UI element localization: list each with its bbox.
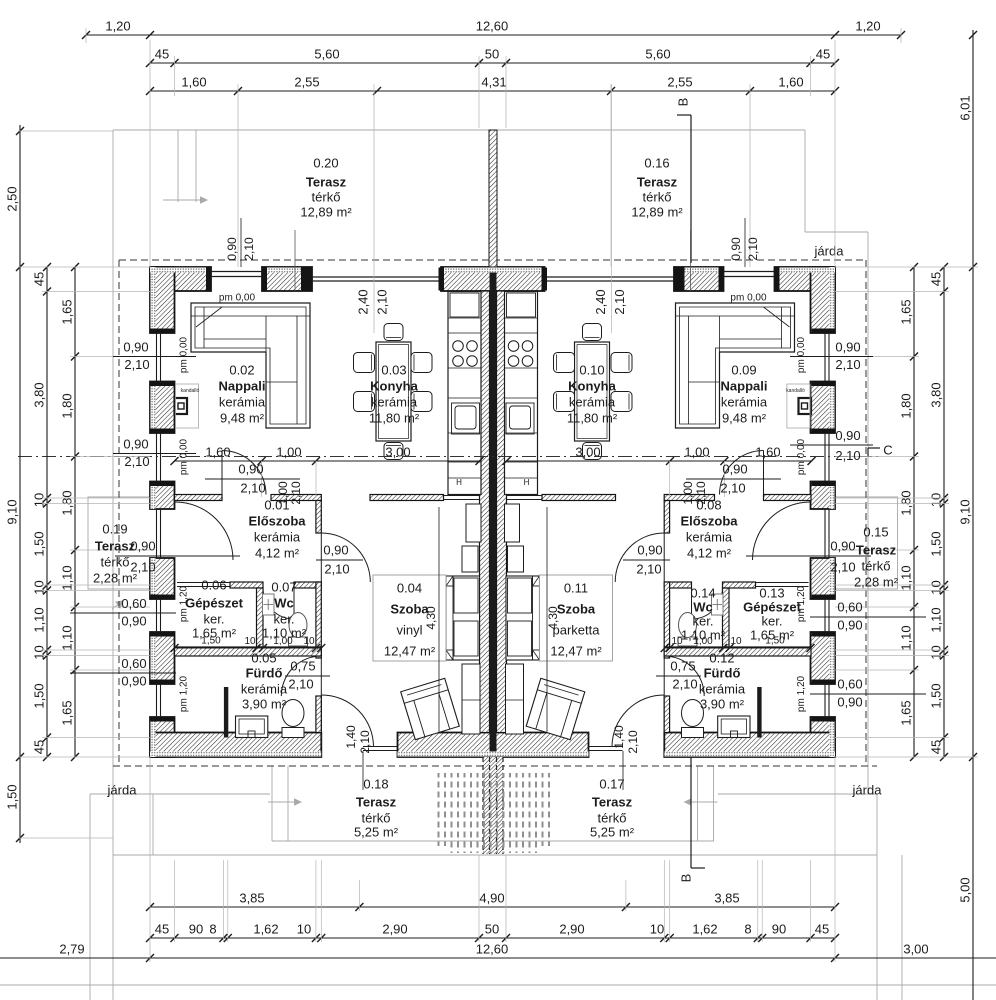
svg-text:Gépészet: Gépészet [743,599,801,614]
svg-text:8: 8 [744,921,751,936]
svg-text:1,65: 1,65 [59,700,74,725]
svg-text:1,62: 1,62 [692,921,717,936]
svg-text:Szoba: Szoba [557,601,596,616]
svg-text:2,10: 2,10 [746,237,760,261]
svg-text:12,47 m²: 12,47 m² [550,643,602,658]
svg-text:2,28 m²: 2,28 m² [854,574,899,589]
svg-text:pm 1,20: pm 1,20 [796,585,807,622]
svg-text:0,90: 0,90 [837,694,862,709]
svg-text:0.02: 0.02 [229,362,254,377]
svg-text:1,20: 1,20 [105,18,130,33]
svg-text:1,10 m²: 1,10 m² [262,625,307,640]
svg-text:6,01: 6,01 [957,95,972,120]
svg-text:1,40: 1,40 [344,725,358,749]
svg-text:10: 10 [31,645,46,659]
svg-text:8: 8 [209,921,216,936]
svg-text:pm 0,00: pm 0,00 [730,293,767,304]
svg-text:3,00: 3,00 [385,444,410,459]
svg-text:Terasz: Terasz [856,542,897,557]
svg-text:45: 45 [928,740,943,754]
svg-text:10: 10 [928,580,943,594]
svg-text:B: B [675,98,690,107]
svg-text:C: C [883,442,892,457]
svg-text:2,10: 2,10 [130,559,155,574]
svg-text:3,00: 3,00 [575,444,600,459]
svg-text:ker.: ker. [693,613,714,628]
svg-text:2,10: 2,10 [672,676,697,691]
svg-text:2,10: 2,10 [288,676,313,691]
svg-text:5,60: 5,60 [645,46,670,61]
svg-text:0,75: 0,75 [290,658,315,673]
svg-text:0,90: 0,90 [123,436,148,451]
svg-text:2,10: 2,10 [124,454,149,469]
svg-text:0,90: 0,90 [835,339,860,354]
svg-text:Fürdő: Fürdő [246,665,283,680]
svg-text:0,60: 0,60 [121,596,146,611]
svg-text:3,00: 3,00 [903,941,928,956]
svg-text:0,90: 0,90 [225,237,239,261]
svg-text:0.09: 0.09 [731,362,756,377]
svg-text:1,10 m²: 1,10 m² [681,627,726,642]
svg-text:pm 1,20: pm 1,20 [179,585,190,622]
svg-text:1,10: 1,10 [59,625,74,650]
svg-text:2,10: 2,10 [289,481,303,505]
svg-text:3,90 m²: 3,90 m² [242,696,287,711]
svg-text:1,65: 1,65 [898,299,913,324]
svg-text:2,10: 2,10 [124,357,149,372]
svg-text:1,50: 1,50 [31,531,46,556]
svg-text:45: 45 [31,272,46,286]
svg-text:0,60: 0,60 [837,676,862,691]
svg-text:kerámia: kerámia [371,394,418,409]
svg-text:45: 45 [815,921,829,936]
svg-text:12,89 m²: 12,89 m² [631,204,683,219]
svg-text:0,75: 0,75 [670,658,695,673]
svg-text:Konyha: Konyha [568,378,616,393]
svg-text:1,10: 1,10 [898,565,913,590]
svg-text:3,85: 3,85 [714,890,739,905]
svg-text:0,90: 0,90 [121,673,146,688]
svg-text:Konyha: Konyha [370,378,418,393]
svg-text:4,90: 4,90 [479,890,504,905]
svg-text:1,10: 1,10 [928,607,943,632]
svg-text:2,10: 2,10 [612,289,627,314]
svg-text:pm 0,00: pm 0,00 [796,438,807,475]
svg-text:Gépészet: Gépészet [185,595,243,610]
svg-text:9,10: 9,10 [957,499,972,524]
svg-text:3,90 m²: 3,90 m² [700,696,745,711]
svg-text:2,55: 2,55 [667,74,692,89]
svg-text:4,12 m²: 4,12 m² [255,545,300,560]
svg-text:1,50: 1,50 [928,683,943,708]
svg-text:0.10: 0.10 [579,362,604,377]
svg-text:45: 45 [155,46,169,61]
svg-text:90: 90 [189,921,203,936]
svg-text:0.15: 0.15 [863,524,888,539]
svg-text:kerámia: kerámia [721,394,768,409]
svg-text:pm 0,00: pm 0,00 [179,336,190,373]
svg-text:járda: járda [814,243,845,258]
svg-text:Előszoba: Előszoba [248,513,306,528]
svg-text:0,90: 0,90 [130,538,155,553]
svg-text:0.18: 0.18 [363,776,388,791]
svg-text:0.20: 0.20 [313,155,338,170]
svg-text:2,79: 2,79 [59,941,84,956]
svg-text:0.04: 0.04 [397,580,422,595]
svg-text:0.14: 0.14 [690,585,715,600]
svg-text:9,10: 9,10 [4,499,19,524]
svg-text:12,60: 12,60 [476,18,509,33]
svg-text:Nappali: Nappali [219,378,266,393]
svg-text:0,90: 0,90 [837,617,862,632]
svg-text:2,50: 2,50 [4,186,19,211]
svg-text:1,00: 1,00 [276,444,301,459]
svg-text:2,10: 2,10 [242,237,256,261]
svg-text:Fürdő: Fürdő [704,665,741,680]
svg-text:kandalló: kandalló [786,388,805,394]
svg-text:kerámia: kerámia [241,681,288,696]
svg-text:0.03: 0.03 [381,362,406,377]
svg-text:10: 10 [730,636,742,647]
svg-text:ker.: ker. [204,611,225,626]
svg-text:2,10: 2,10 [835,448,860,463]
svg-text:térkő: térkő [312,189,341,204]
svg-text:3,80: 3,80 [928,382,943,407]
svg-text:1,60: 1,60 [778,74,803,89]
svg-text:11,80 m²: 11,80 m² [369,410,420,425]
svg-text:Wc: Wc [274,595,294,610]
svg-text:1,65 m²: 1,65 m² [192,625,237,640]
svg-text:10: 10 [297,921,311,936]
svg-text:5,25 m²: 5,25 m² [590,824,635,839]
svg-text:4,12 m²: 4,12 m² [687,545,732,560]
svg-text:9,48 m²: 9,48 m² [220,410,265,425]
svg-text:0,60: 0,60 [837,599,862,614]
svg-text:H: H [456,478,462,487]
svg-text:0,90: 0,90 [323,542,348,557]
svg-text:50: 50 [485,921,499,936]
svg-text:4,30: 4,30 [546,606,560,630]
svg-text:1,60: 1,60 [755,444,780,459]
svg-text:0,60: 0,60 [121,656,146,671]
svg-text:0.17: 0.17 [599,776,624,791]
svg-text:5,60: 5,60 [314,46,339,61]
svg-text:térkő: térkő [862,558,891,573]
svg-text:2,10: 2,10 [374,289,389,314]
svg-text:térkő: térkő [643,189,672,204]
svg-text:1,65: 1,65 [898,700,913,725]
svg-text:1,40: 1,40 [612,725,626,749]
svg-text:10: 10 [244,636,256,647]
svg-text:2,10: 2,10 [626,730,640,754]
svg-text:Terasz: Terasz [637,174,678,189]
svg-text:B: B [678,874,693,883]
svg-text:2,40: 2,40 [355,289,370,314]
svg-text:1,50: 1,50 [928,531,943,556]
svg-text:pm 0,00: pm 0,00 [179,438,190,475]
svg-text:10: 10 [928,645,943,659]
svg-text:1,80: 1,80 [59,393,74,418]
svg-text:Terasz: Terasz [306,174,347,189]
svg-text:45: 45 [816,46,830,61]
svg-text:0.16: 0.16 [644,155,669,170]
svg-text:2,10: 2,10 [830,559,855,574]
svg-text:45: 45 [155,921,169,936]
svg-text:45: 45 [928,272,943,286]
svg-text:1,00: 1,00 [276,481,290,505]
svg-text:2,10: 2,10 [324,561,349,576]
svg-text:2,10: 2,10 [720,480,745,495]
svg-text:kerámia: kerámia [686,529,733,544]
svg-text:5,25 m²: 5,25 m² [354,824,399,839]
svg-text:0,90: 0,90 [835,428,860,443]
svg-text:4,30: 4,30 [424,606,438,630]
svg-text:2,40: 2,40 [593,289,608,314]
svg-text:4,31: 4,31 [481,74,506,89]
svg-text:2,10: 2,10 [694,481,708,505]
svg-text:kerámia: kerámia [219,394,266,409]
svg-text:0.19: 0.19 [102,521,127,536]
svg-text:1,80: 1,80 [898,393,913,418]
svg-text:0.06: 0.06 [201,577,226,592]
svg-text:1,10: 1,10 [31,607,46,632]
svg-text:0,90: 0,90 [830,538,855,553]
svg-text:0.12: 0.12 [709,650,734,665]
svg-text:1,65 m²: 1,65 m² [750,627,795,642]
svg-text:2,10: 2,10 [835,357,860,372]
svg-text:10: 10 [928,493,943,507]
svg-text:vinyl: vinyl [396,622,422,637]
svg-text:0,90: 0,90 [121,613,146,628]
svg-text:0.05: 0.05 [251,650,276,665]
svg-text:1,60: 1,60 [205,444,230,459]
svg-text:Nappali: Nappali [721,378,768,393]
svg-text:2,10: 2,10 [240,480,265,495]
svg-text:0,90: 0,90 [123,339,148,354]
svg-text:pm 1,20: pm 1,20 [179,675,190,712]
svg-text:50: 50 [485,46,499,61]
svg-text:10: 10 [650,921,664,936]
svg-text:12,89 m²: 12,89 m² [300,204,352,219]
svg-text:1,50: 1,50 [31,683,46,708]
svg-text:10: 10 [31,493,46,507]
svg-text:11,80 m²: 11,80 m² [567,410,618,425]
svg-text:1,80: 1,80 [59,490,74,515]
svg-text:1,80: 1,80 [898,490,913,515]
svg-text:5,00: 5,00 [957,877,972,902]
svg-text:0.13: 0.13 [759,585,784,600]
svg-text:térkő: térkő [362,810,391,825]
svg-text:12,60: 12,60 [476,941,509,956]
svg-text:2,10: 2,10 [358,730,372,754]
svg-text:kandalló: kandalló [181,388,200,394]
svg-text:pm 0,00: pm 0,00 [219,293,256,304]
svg-text:kerámia: kerámia [254,529,301,544]
svg-text:1,50: 1,50 [4,784,19,809]
svg-text:kerámia: kerámia [569,394,616,409]
svg-text:1,10: 1,10 [898,625,913,650]
svg-text:H: H [524,478,530,487]
svg-text:1,60: 1,60 [181,74,206,89]
svg-text:90: 90 [772,921,786,936]
svg-text:Wc: Wc [693,599,713,614]
svg-text:járda: járda [107,782,138,797]
svg-text:0,90: 0,90 [729,237,743,261]
svg-text:ker.: ker. [762,613,783,628]
svg-text:0,90: 0,90 [637,542,662,557]
svg-text:3,80: 3,80 [31,382,46,407]
svg-text:ker.: ker. [274,611,295,626]
svg-text:1,65: 1,65 [59,299,74,324]
svg-text:1,00: 1,00 [684,444,709,459]
svg-text:kerámia: kerámia [699,681,746,696]
svg-text:járda: járda [852,782,883,797]
svg-text:térkő: térkő [101,554,130,569]
svg-text:0,90: 0,90 [238,461,263,476]
svg-text:0.07: 0.07 [271,579,296,594]
svg-text:1,20: 1,20 [855,18,880,33]
svg-text:Előszoba: Előszoba [680,513,738,528]
svg-text:9,48 m²: 9,48 m² [722,410,767,425]
svg-text:0.11: 0.11 [564,580,588,595]
svg-text:2,10: 2,10 [636,561,661,576]
svg-text:10: 10 [31,580,46,594]
svg-text:12,47 m²: 12,47 m² [384,643,436,658]
svg-text:pm 0,00: pm 0,00 [796,336,807,373]
svg-text:2,90: 2,90 [559,921,584,936]
svg-text:térkő: térkő [598,810,627,825]
svg-text:pm 1,20: pm 1,20 [796,675,807,712]
svg-text:2,55: 2,55 [294,74,319,89]
svg-text:3,85: 3,85 [239,890,264,905]
svg-text:Terasz: Terasz [356,794,397,809]
svg-text:1,62: 1,62 [253,921,278,936]
svg-text:0,90: 0,90 [722,461,747,476]
svg-text:45: 45 [31,740,46,754]
svg-text:1,00: 1,00 [681,481,695,505]
svg-text:Terasz: Terasz [592,794,633,809]
svg-text:1,10: 1,10 [59,565,74,590]
svg-text:2,90: 2,90 [382,921,407,936]
